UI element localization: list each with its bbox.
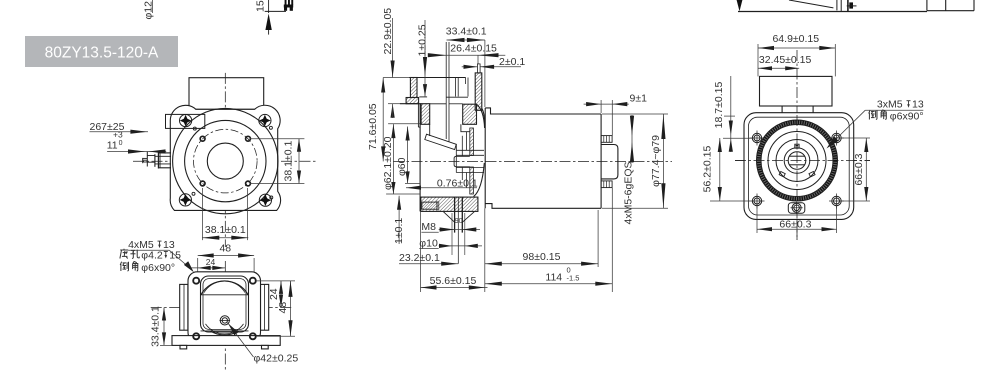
svg-text:114: 114	[545, 272, 562, 284]
svg-text:4xM5-6gEQS: 4xM5-6gEQS	[623, 161, 635, 224]
svg-text:26.4±0.15: 26.4±0.15	[450, 43, 497, 55]
svg-text:24: 24	[206, 257, 216, 267]
svg-text:38.1±0.1: 38.1±0.1	[283, 141, 295, 182]
svg-text:33.4±0.1: 33.4±0.1	[150, 306, 162, 347]
svg-text:71.6±0.05: 71.6±0.05	[367, 103, 379, 150]
svg-text:56.2±0.15: 56.2±0.15	[702, 146, 714, 193]
svg-text:0: 0	[119, 140, 123, 147]
svg-text:3xM5: 3xM5	[877, 99, 903, 111]
svg-text:φ77.4~φ79: φ77.4~φ79	[650, 135, 662, 187]
svg-text:66±0.3: 66±0.3	[779, 218, 811, 230]
svg-text:-1.5: -1.5	[567, 274, 580, 283]
svg-text:64.9±0.15: 64.9±0.15	[772, 33, 819, 45]
svg-text:48: 48	[219, 243, 231, 255]
svg-text:23.2±0.1: 23.2±0.1	[399, 252, 440, 264]
svg-text:13: 13	[912, 99, 924, 111]
svg-text:φ6x90°: φ6x90°	[141, 262, 175, 274]
svg-text:11: 11	[107, 139, 118, 151]
svg-text:98±0.15: 98±0.15	[523, 251, 561, 263]
svg-text:φ62.1±0.20: φ62.1±0.20	[382, 136, 394, 190]
svg-text:38.1±0.1: 38.1±0.1	[205, 224, 246, 236]
svg-text:φ6x90°: φ6x90°	[890, 111, 924, 123]
svg-text:24: 24	[268, 288, 280, 300]
svg-text:33.4±0.1: 33.4±0.1	[446, 26, 487, 38]
svg-text:9±1: 9±1	[630, 93, 648, 105]
svg-text:M8: M8	[421, 221, 436, 233]
svg-text:90: 90	[455, 218, 463, 225]
svg-text:φ10: φ10	[419, 238, 438, 250]
svg-text:80ZY13.5-120-A: 80ZY13.5-120-A	[45, 45, 159, 62]
svg-text:φ42±0.25: φ42±0.25	[254, 353, 299, 365]
svg-text:55.6±0.15: 55.6±0.15	[430, 275, 477, 287]
svg-text:+3: +3	[113, 129, 123, 139]
svg-text:15: 15	[255, 0, 267, 12]
svg-text:66±0.3: 66±0.3	[853, 153, 865, 185]
svg-text:2±0.1: 2±0.1	[499, 56, 525, 68]
svg-text:32.45±0.15: 32.45±0.15	[759, 54, 812, 66]
svg-text:48: 48	[277, 302, 289, 314]
svg-text:18.7±0.15: 18.7±0.15	[713, 82, 725, 129]
svg-text:1±0.25: 1±0.25	[416, 24, 428, 56]
svg-text:22.9±0.05: 22.9±0.05	[382, 8, 394, 55]
svg-text:φ4.2: φ4.2	[141, 250, 163, 262]
